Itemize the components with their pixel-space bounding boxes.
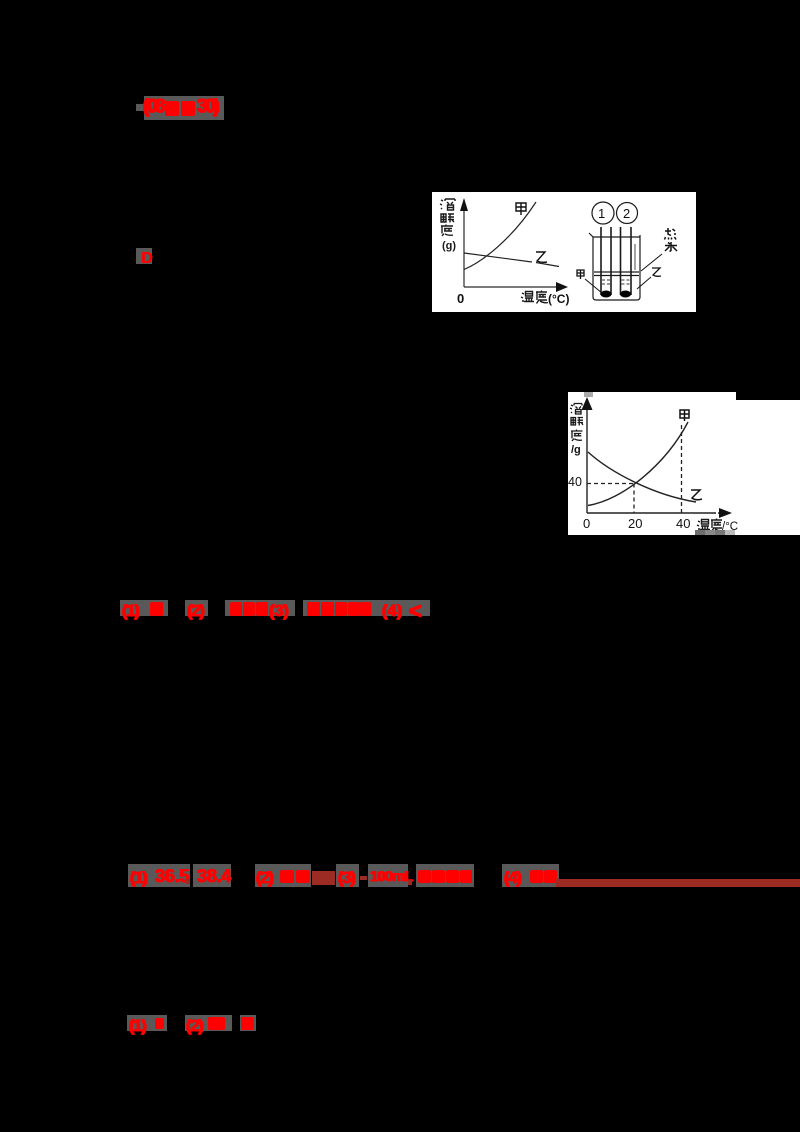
svg-text:40: 40 xyxy=(568,475,582,489)
svg-text:2: 2 xyxy=(623,206,630,221)
svg-text:1: 1 xyxy=(598,206,605,221)
svg-text:0: 0 xyxy=(457,291,464,306)
svg-text:(°C): (°C) xyxy=(548,292,569,306)
svg-text:20: 20 xyxy=(628,516,642,531)
svg-text:0: 0 xyxy=(583,516,590,531)
svg-text:/g: /g xyxy=(571,444,581,456)
svg-text:40: 40 xyxy=(676,516,690,531)
svg-text:(g): (g) xyxy=(442,240,456,252)
